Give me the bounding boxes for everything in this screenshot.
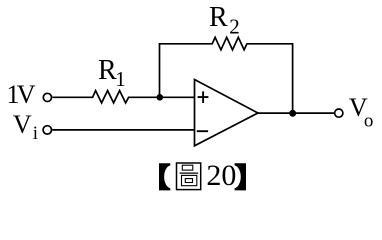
svg-text:2: 2 [229,15,240,39]
svg-text:i: i [33,123,38,144]
svg-text:20: 20 [206,159,236,192]
svg-text:o: o [364,110,374,131]
svg-text:R: R [209,2,228,33]
svg-text:V: V [13,110,32,139]
svg-text:R: R [98,55,117,86]
svg-text:V: V [17,80,36,109]
svg-text:1: 1 [115,67,126,91]
